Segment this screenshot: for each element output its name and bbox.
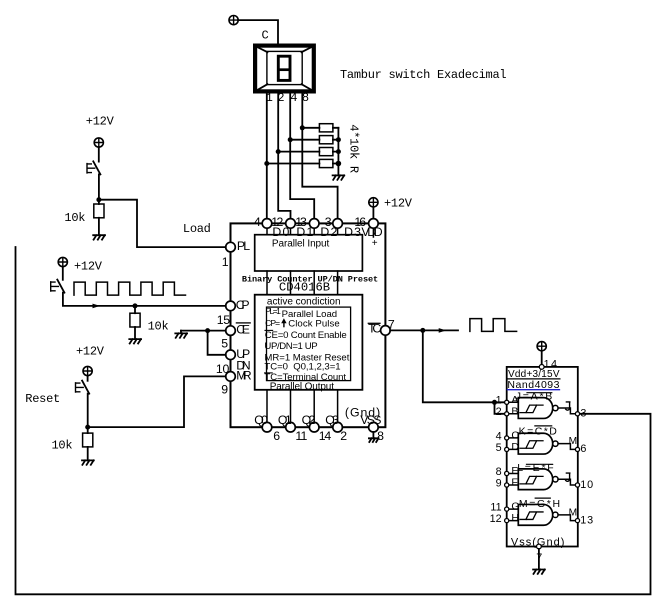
- svg-text:E: E: [511, 465, 518, 477]
- svg-text:Parallel Output: Parallel Output: [270, 381, 335, 392]
- junction resistor R3 / bus: [336, 149, 341, 154]
- wire Reset node to MR pin: [88, 376, 226, 427]
- junction resistor R2 / bus: [336, 137, 341, 142]
- svg-text:4: 4: [254, 215, 261, 229]
- pin 7 (TC): [368, 317, 395, 335]
- svg-text:4: 4: [290, 91, 297, 105]
- wire thumbwheel pin1 to counter D0 (pin 4): [266, 93, 268, 218]
- wire resistor common bus: [337, 128, 339, 176]
- svg-text:1: 1: [222, 255, 229, 269]
- pin 6 (output M): [569, 436, 587, 455]
- wire Load node to PL pin: [99, 200, 226, 247]
- pin 16 (VDD): [354, 215, 382, 249]
- svg-text:3: 3: [580, 407, 586, 419]
- IC U2 Nand4093 box: [507, 367, 578, 547]
- svg-text:C: C: [262, 29, 269, 43]
- svg-text:MR: MR: [236, 368, 252, 382]
- resistor R4 10k (pull-down, bit 1 line): [267, 159, 339, 167]
- svg-text:2: 2: [496, 406, 502, 418]
- pin 5 (D): [496, 441, 520, 454]
- wire CE pin to ground: [181, 330, 226, 332]
- svg-text:TC=0 Q0,1,2,3=1: TC=0 Q0,1,2,3=1: [264, 362, 340, 373]
- svg-text:5: 5: [221, 337, 228, 351]
- junction bit2 line / R3: [276, 149, 281, 154]
- resistor R1 10k (pull-down, bit 8 line): [302, 124, 338, 132]
- pin 8 (VSS): [345, 405, 384, 443]
- svg-text:Reset: Reset: [25, 392, 60, 406]
- svg-text:M: M: [569, 436, 578, 447]
- pin 10 (output J): [566, 473, 593, 491]
- pushbutton switch SW1 (Load): [87, 161, 100, 174]
- pushbutton switch SW3 (Reset): [76, 381, 90, 394]
- pin 14 (Vdd): [539, 359, 557, 371]
- svg-text:7: 7: [388, 317, 395, 331]
- signal flow arrow (TC): [439, 328, 447, 333]
- svg-text:1: 1: [496, 395, 502, 407]
- svg-text:11: 11: [490, 502, 501, 514]
- junction CP node: [133, 303, 138, 308]
- IC U1 counter CD4016B outer box: [231, 223, 386, 427]
- junction Reset node: [85, 425, 90, 430]
- svg-text:CE=0 Count Enable: CE=0 Count Enable: [265, 330, 347, 341]
- resistor R5 10k (Load pull-down): [94, 200, 104, 236]
- legend box: [267, 307, 351, 381]
- TC waveform symbol: [470, 319, 517, 332]
- svg-text:K=C*D: K=C*D: [519, 426, 558, 438]
- wire TC output: [390, 329, 458, 331]
- power +12V supply symbol (thumbwheel common): [229, 16, 238, 25]
- svg-text:8: 8: [496, 466, 502, 478]
- svg-text:CE: CE: [236, 323, 250, 337]
- svg-text:15: 15: [217, 313, 231, 327]
- pin 12 (H): [490, 512, 519, 525]
- wire TC node to NAND inputs: [423, 330, 505, 402]
- svg-text:8: 8: [377, 429, 384, 443]
- svg-text:UP/DN=1 UP: UP/DN=1 UP: [264, 341, 317, 352]
- pin 2 (Q3): [325, 413, 347, 443]
- feedback wire NAND out 3 to left rail: [16, 247, 651, 594]
- ground (CP pull-down): [129, 339, 141, 343]
- pin 14 (Q2): [302, 413, 332, 443]
- junction bit1 line / R4: [264, 161, 269, 166]
- svg-text:+12V: +12V: [86, 114, 115, 128]
- pin 15 (CP): [217, 298, 250, 327]
- pin 4 (D0): [254, 215, 290, 239]
- resistor R2 10k (pull-down, bit 4 line): [290, 136, 338, 144]
- wire supply to pin 16: [372, 207, 374, 219]
- ground (resistor bus): [333, 175, 345, 179]
- ground (Load pull-down): [93, 235, 105, 239]
- svg-text:14: 14: [319, 429, 332, 443]
- svg-text:+12V: +12V: [74, 260, 103, 274]
- wire switch to junction: [87, 394, 89, 428]
- internal wires core to output pins: [267, 390, 338, 423]
- svg-text:CP=: CP=: [265, 318, 280, 328]
- pin 11 (Q1): [278, 413, 308, 443]
- wire CE node to UP pin: [208, 331, 226, 355]
- wire supply to switch: [62, 267, 64, 280]
- ground (Reset pull-down): [82, 460, 94, 464]
- pin 12 (D1): [271, 215, 313, 239]
- svg-text:+: +: [372, 238, 378, 249]
- wire switch to junction: [98, 174, 100, 199]
- svg-text:Load: Load: [183, 222, 211, 236]
- junction resistor R4 / bus: [336, 161, 342, 167]
- clock waveform symbol: [74, 282, 186, 295]
- wire VSS to ground: [372, 432, 374, 438]
- svg-text:Q3: Q3: [325, 413, 339, 427]
- pin 1 (PL): [222, 239, 250, 269]
- svg-text:Q2: Q2: [302, 413, 316, 427]
- label Nand4093 (blue): [507, 379, 559, 391]
- wire Vss to ground: [538, 549, 540, 570]
- junction TC node: [420, 328, 425, 333]
- svg-text:A: A: [511, 394, 518, 406]
- wire supply to switch: [98, 147, 100, 161]
- svg-text:+12V: +12V: [76, 345, 105, 359]
- pin 10 (UP / DN): [216, 347, 251, 376]
- svg-text:13: 13: [580, 514, 593, 526]
- internal wires Parallel Input to core: [267, 271, 338, 295]
- junction Load node: [96, 197, 101, 202]
- power +12V supply symbol (Load branch): [94, 138, 103, 147]
- overline CE (legend): [265, 329, 273, 331]
- svg-text:5: 5: [496, 442, 502, 454]
- wire thumbwheel pin4 to counter D2 (pin 13): [290, 93, 314, 218]
- wire supply to thumbwheel common: [238, 20, 278, 43]
- pin 9 (MR): [221, 368, 252, 396]
- Parallel Input box: [255, 235, 363, 271]
- svg-text:10: 10: [580, 479, 593, 491]
- wire thumbwheel pin2 to counter D1 (pin 12): [278, 93, 290, 218]
- svg-text:6: 6: [273, 429, 280, 443]
- pin 13 (output M): [569, 508, 594, 527]
- pin 13 (D2): [295, 215, 337, 239]
- svg-text:CD4016B: CD4016B: [279, 281, 330, 295]
- pin 11 (G): [490, 501, 519, 514]
- svg-text:Q0: Q0: [254, 413, 268, 427]
- svg-text:M: M: [569, 508, 578, 519]
- NAND gate U2B (K=C*D): [509, 426, 576, 454]
- svg-text:10k: 10k: [148, 319, 169, 333]
- junction bit8 line / R1: [300, 125, 305, 130]
- svg-text:9: 9: [221, 383, 228, 397]
- power +12V supply symbol (counter VDD): [369, 198, 378, 207]
- svg-text:+12V: +12V: [384, 197, 413, 211]
- svg-text:4: 4: [496, 430, 502, 442]
- svg-text:10k: 10k: [64, 211, 85, 225]
- svg-text:VSS: VSS: [360, 413, 381, 427]
- pin 6 (Q0): [254, 413, 280, 443]
- wire supply to switch: [87, 376, 89, 381]
- svg-text:C: C: [511, 430, 519, 442]
- pin 7 (Vss): [536, 544, 542, 564]
- ground (CE): [175, 331, 187, 338]
- core box (active condiction): [255, 295, 363, 390]
- power +12V supply symbol (clock branch): [58, 257, 67, 266]
- pin 3 (D3): [325, 215, 361, 239]
- svg-text:6: 6: [580, 443, 586, 455]
- resistor R3 10k (pull-down, bit 2 line): [278, 148, 338, 156]
- pin 3 (output J): [566, 402, 587, 420]
- svg-text:B: B: [511, 405, 518, 417]
- wire supply to pin 14: [541, 351, 543, 364]
- svg-text:12: 12: [490, 513, 502, 525]
- pin 2 (B): [496, 405, 519, 418]
- svg-text:Tambur switch Exadecimal: Tambur switch Exadecimal: [340, 68, 506, 82]
- svg-text:13: 13: [295, 215, 307, 229]
- svg-text:G: G: [511, 501, 519, 513]
- junction NAND A/B tie: [492, 400, 497, 405]
- label Vdd+3/15V: [508, 369, 560, 380]
- pin 4 (C): [496, 430, 520, 443]
- svg-text:PL=1: PL=1: [265, 306, 281, 316]
- resistor R6 10k (CP pull-down): [130, 306, 140, 339]
- junction CE / UP tie: [205, 328, 210, 333]
- svg-text:2: 2: [340, 429, 347, 443]
- svg-text:D: D: [511, 441, 519, 453]
- svg-text:H: H: [511, 512, 519, 524]
- wire switch to CP pin: [63, 293, 226, 306]
- svg-text:3: 3: [325, 215, 332, 229]
- ground (NAND Vss): [533, 570, 545, 574]
- svg-text:11: 11: [295, 429, 307, 443]
- svg-text:F: F: [511, 477, 517, 489]
- junction bit4 line / R2: [288, 137, 293, 142]
- svg-text:CP: CP: [236, 298, 250, 312]
- internal stubs pins to Parallel Input box: [267, 228, 373, 237]
- svg-text:4*10k R: 4*10k R: [347, 124, 361, 173]
- power +12V supply symbol (Reset branch): [83, 366, 92, 375]
- clock pulse arrow glyph: [283, 322, 285, 327]
- power supply symbol (NAND Vdd): [537, 342, 546, 351]
- NAND gate U2A (J=A*B): [509, 390, 576, 418]
- svg-text:Parallel Input: Parallel Input: [272, 238, 330, 249]
- wire to NAND pin 2: [495, 402, 505, 414]
- pin 1 (A): [496, 394, 519, 407]
- signal flow arrow (CP): [93, 304, 101, 309]
- NAND gate U2D (M=G*H): [509, 498, 576, 525]
- pushbutton switch SW2 (clock): [51, 280, 65, 293]
- svg-text:Q1: Q1: [278, 413, 292, 427]
- wire thumbwheel pin8 to counter D3 (pin 3): [302, 93, 337, 218]
- ground (counter VSS): [369, 438, 379, 442]
- svg-text:Clock Pulse: Clock Pulse: [288, 318, 340, 329]
- resistor R7 10k (Reset pull-down): [83, 427, 93, 460]
- svg-text:9: 9: [496, 477, 502, 489]
- pin 8 (E): [496, 465, 519, 478]
- pin 5 (CE): [221, 323, 250, 351]
- svg-text:12: 12: [271, 215, 283, 229]
- svg-text:PL: PL: [237, 239, 250, 253]
- svg-text:10k: 10k: [52, 439, 73, 453]
- pin 9 (F): [496, 477, 518, 490]
- NAND gate U2C (L=E*F): [509, 462, 576, 490]
- overline TC (legend): [265, 372, 273, 374]
- thumbwheel switch S1 (Tambur switch): [255, 46, 314, 92]
